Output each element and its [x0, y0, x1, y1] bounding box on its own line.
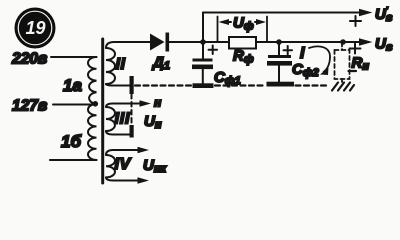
lead 127V [53, 104, 94, 106]
svg-text:Rф: Rф [233, 48, 254, 66]
Rn stub bottom [341, 79, 343, 83]
capacitor Cf2 plus [284, 46, 293, 55]
secondary winding II [106, 48, 115, 84]
winding II bottom lead [106, 84, 130, 86]
rail arrow Uv [359, 38, 373, 46]
figure number badge 19 [15, 8, 56, 49]
winding II top lead [106, 42, 150, 48]
svg-text:Rн: Rн [352, 55, 370, 73]
resistor Rf [229, 37, 256, 49]
winding III [106, 107, 115, 131]
current I arc arrow [309, 46, 330, 72]
svg-text:Uф: Uф [233, 15, 254, 33]
dashed return rail segment 3 [296, 84, 330, 86]
riser to top rail [202, 13, 204, 43]
plus near U'v [350, 16, 361, 26]
lead 220V [51, 56, 97, 58]
Uf arrow left [222, 21, 231, 23]
winding IV [106, 155, 115, 177]
winding III terminal bar [130, 125, 134, 138]
svg-text:II: II [116, 56, 126, 73]
svg-text:Сф1: Сф1 [214, 69, 241, 87]
svg-text:Д1: Д1 [151, 54, 170, 72]
capacitor Cf1 plus [209, 46, 218, 55]
capacitor Cf2 stem top [278, 42, 280, 55]
chassis hatch [332, 83, 354, 91]
Rn stub top [341, 43, 343, 50]
svg-text:I: I [300, 45, 305, 62]
svg-text:220в: 220в [11, 51, 47, 68]
wire node B to node C [279, 41, 360, 43]
capacitor Cf1 stem top [202, 42, 204, 59]
primary bottom lead [50, 159, 97, 161]
capacitor Cf2 plates [268, 55, 291, 58]
primary winding Ia [88, 57, 97, 104]
svg-text:Uнк: Uнк [143, 157, 167, 175]
capacitor Cf2 stem bottom [278, 66, 280, 83]
Uf arrow right [255, 21, 262, 23]
winding IV top lead with arrow [106, 150, 139, 155]
dashed return rail segment 2 [215, 84, 265, 86]
Uf bracket tick left [217, 17, 219, 43]
transformer core [101, 39, 104, 183]
node C dot [340, 39, 346, 45]
winding IV bottom lead with arrow [106, 177, 139, 180]
capacitor Cf1 plates [193, 59, 213, 62]
plus near Uv [350, 44, 361, 54]
top rail to U'v [203, 12, 360, 14]
svg-text:IV: IV [115, 156, 132, 173]
node B dot [276, 39, 282, 45]
wire diode to node A [169, 41, 229, 43]
svg-text:127в: 127в [12, 98, 47, 115]
capacitor Cf1 stem bottom [202, 69, 204, 84]
svg-text:U′в: U′в [375, 6, 393, 24]
svg-text:1а: 1а [63, 76, 82, 95]
svg-text:III: III [115, 111, 131, 128]
node A dot [200, 39, 206, 45]
svg-text:Сф2: Сф2 [292, 61, 319, 79]
winding III top lead with arrow [106, 104, 141, 108]
dashed return rail segment 1 [135, 84, 191, 86]
Uf bracket tick right [266, 17, 268, 43]
wire resistor to node B [256, 41, 279, 43]
svg-text:1б: 1б [61, 132, 81, 151]
winding III bottom lead [106, 131, 130, 135]
dashed link down to winding III return [131, 94, 133, 125]
capacitor Cf2 ground bar [267, 82, 295, 87]
diode D1 [150, 33, 169, 52]
svg-text:Uв: Uв [375, 36, 393, 54]
svg-text:Uн: Uн [144, 113, 162, 131]
svg-text:19: 19 [25, 18, 45, 38]
minus near Rn [349, 70, 357, 72]
capacitor Cf1 ground bar [193, 83, 214, 88]
tap junction dot [93, 101, 99, 107]
load Rn dashed box [335, 50, 350, 79]
svg-text:н: н [154, 96, 162, 110]
primary winding Ib [88, 104, 97, 160]
screen bar at winding II return [130, 76, 134, 94]
